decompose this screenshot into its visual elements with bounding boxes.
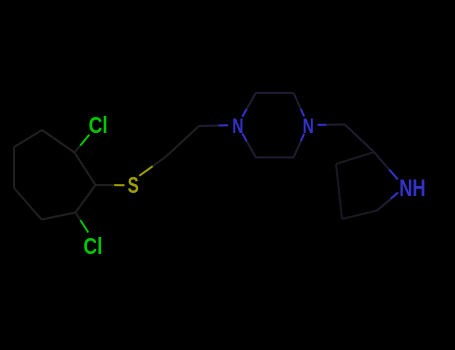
wire ring bond C6-C7 <box>42 213 76 220</box>
wire pyrrolidine bond C2-C3 <box>336 152 374 164</box>
svg-text:NH: NH <box>399 175 425 202</box>
wire bond C1-S <box>96 184 125 186</box>
wire piperazine bottom edge C5-C6 <box>256 156 294 158</box>
wire pyrrolidine bond C2-N1 <box>374 152 398 180</box>
wire piperazine top edge C2-C3 <box>256 92 294 94</box>
wire pyrrolidine bond C4-C5 <box>342 211 377 220</box>
wire pyrrolidine bond C5-N1 <box>377 193 398 211</box>
svg-text:N: N <box>232 114 243 138</box>
wire piperazine bond C6-N1 <box>242 133 256 157</box>
wire bond CH2-C2 (pyrrolidine) <box>345 125 374 153</box>
wire ring bond C4-C5 <box>13 147 15 188</box>
wire ring bond C2-C3 <box>42 130 75 153</box>
wire piperazine bond N1-C2 <box>242 93 256 117</box>
wire piperazine bond N4-C5 <box>294 134 305 158</box>
svg-text:S: S <box>128 172 139 198</box>
wire benzene-ring bond C1-C2 <box>75 153 96 186</box>
wire bond C7-Cl bottom <box>76 213 89 233</box>
wire ring bond C3-C4 <box>14 130 42 147</box>
wire bond S-CH2 <box>139 157 166 176</box>
wire ring bond C5-C6 <box>14 188 42 220</box>
wire bond CH2-N1 <box>199 124 228 127</box>
wire ring bond C7-C1 <box>76 185 96 213</box>
svg-text:N: N <box>303 114 314 138</box>
wire chain bond CH2-CH2 <box>166 126 199 157</box>
wire bond N4-CH2 <box>318 124 345 126</box>
svg-text:Cl: Cl <box>89 112 108 138</box>
wire bond C2-Cl top <box>75 135 90 153</box>
wire piperazine bond C3-N4 <box>294 93 305 117</box>
svg-text:Cl: Cl <box>83 233 102 259</box>
wire pyrrolidine bond C3-C4 <box>336 164 342 219</box>
